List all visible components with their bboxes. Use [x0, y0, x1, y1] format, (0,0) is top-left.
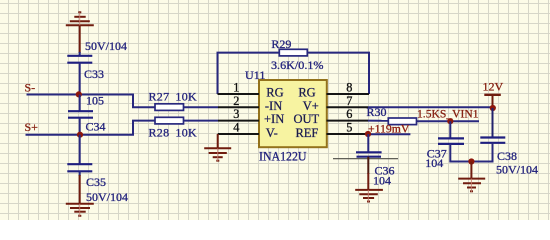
wire pin7 to 12V junction	[368, 106, 493, 108]
wire VIN1 junction down to C37	[449, 121, 451, 138]
wire pin5 junction down to C36	[367, 134, 369, 152]
svg-text:C34: C34	[86, 120, 106, 134]
svg-text:8: 8	[346, 81, 352, 95]
svg-text:RG: RG	[266, 85, 283, 99]
pin 6	[327, 120, 369, 122]
ground GND top-left (inverted earth)	[66, 12, 94, 53]
resistor R30	[388, 118, 416, 125]
resistor R27	[155, 104, 184, 111]
svg-text:V+: V+	[303, 99, 319, 113]
pin 8	[327, 93, 370, 95]
junction ground node C37/C38	[468, 158, 474, 164]
svg-text:-IN: -IN	[265, 99, 282, 113]
svg-text:1: 1	[233, 81, 239, 95]
ground GND bottom-left	[66, 175, 94, 216]
svg-text:+IN: +IN	[264, 112, 284, 126]
svg-text:C33: C33	[84, 67, 104, 81]
svg-text:R30: R30	[367, 105, 387, 119]
wire 12V junction down to C38	[492, 108, 494, 138]
svg-text:3: 3	[233, 107, 239, 121]
svg-text:3.6K/0.1%: 3.6K/0.1%	[271, 58, 324, 72]
svg-text:50V/104: 50V/104	[86, 190, 128, 204]
pin 4	[218, 133, 259, 135]
wire pin6 to R30	[368, 120, 388, 122]
wire C36 to ground	[367, 157, 369, 174]
svg-text:5: 5	[346, 121, 352, 135]
capacitor C38	[480, 138, 505, 143]
junction pin5 node	[365, 131, 371, 137]
junction S+/C34/C35	[77, 132, 83, 138]
pin 7	[327, 106, 369, 108]
ground hairlines	[80, 12, 472, 216]
pin names inside U11	[264, 85, 320, 139]
wire C37 & C38 bottoms to common ground	[450, 143, 492, 162]
R29 feedback loop wires	[218, 53, 370, 94]
svg-text:RG: RG	[298, 85, 315, 99]
resistor R29	[279, 49, 307, 56]
op-amp U11 body INA122U	[259, 80, 327, 147]
svg-text:S+: S+	[25, 120, 39, 134]
ground at C37/C38	[458, 162, 485, 192]
wire: junction to C35	[79, 135, 81, 165]
ground at pin 4	[204, 134, 231, 161]
capacitor C37	[438, 138, 464, 144]
svg-text:7: 7	[346, 94, 352, 108]
svg-text:S-: S-	[25, 81, 36, 95]
thin line across C36	[333, 158, 398, 160]
svg-text:105: 105	[86, 94, 104, 108]
pin 5	[327, 133, 369, 135]
svg-text:R28 10K: R28 10K	[149, 126, 198, 140]
capacitor C33	[67, 56, 92, 63]
svg-text:V-: V-	[266, 126, 278, 140]
svg-text:4: 4	[233, 121, 239, 135]
svg-text:6: 6	[346, 107, 352, 121]
power 12V bar	[484, 94, 501, 96]
svg-text:50V/104: 50V/104	[85, 39, 127, 53]
svg-text:2: 2	[233, 94, 239, 108]
resistor R28	[155, 117, 184, 124]
wire S+ horizontal	[26, 121, 156, 135]
wire S- horizontal	[27, 95, 156, 108]
wire: R27 to pin2	[184, 106, 219, 108]
svg-text:C35: C35	[86, 175, 106, 189]
capacitor C36	[356, 152, 382, 156]
svg-text:12V: 12V	[483, 80, 504, 94]
wire: gnd to C33	[79, 52, 81, 56]
svg-text:50V/104: 50V/104	[496, 162, 538, 176]
wire: C35 to ground	[79, 171, 81, 176]
wire stub under +119mV	[368, 133, 410, 135]
pin 1	[218, 93, 260, 95]
svg-text:OUT: OUT	[293, 112, 319, 126]
svg-text:R27 10K: R27 10K	[149, 90, 198, 104]
capacitor C34	[68, 111, 93, 118]
wire R30 to VIN1 end	[417, 120, 480, 122]
junction VIN1/C37	[447, 118, 453, 124]
junction 12V node	[490, 105, 496, 111]
wire: C34 to S+ junction	[79, 118, 81, 135]
wire: R28 to pin3	[184, 120, 219, 122]
junction S-/C33/C34	[76, 91, 82, 97]
capacitor C35	[67, 164, 92, 171]
svg-text:104: 104	[425, 156, 443, 170]
pin 3	[218, 120, 259, 122]
svg-text:1.5KS_VIN1: 1.5KS_VIN1	[417, 107, 479, 121]
wire: C33 to S- junction	[79, 63, 81, 95]
svg-text:C38: C38	[497, 149, 517, 163]
svg-text:104: 104	[373, 174, 391, 188]
svg-text:INA122U: INA122U	[259, 149, 307, 163]
ground at C36	[355, 173, 383, 202]
svg-text:REF: REF	[295, 126, 318, 140]
pin 2	[218, 106, 259, 108]
power 12V stem	[492, 95, 494, 109]
wire: junction to C34	[79, 95, 81, 112]
